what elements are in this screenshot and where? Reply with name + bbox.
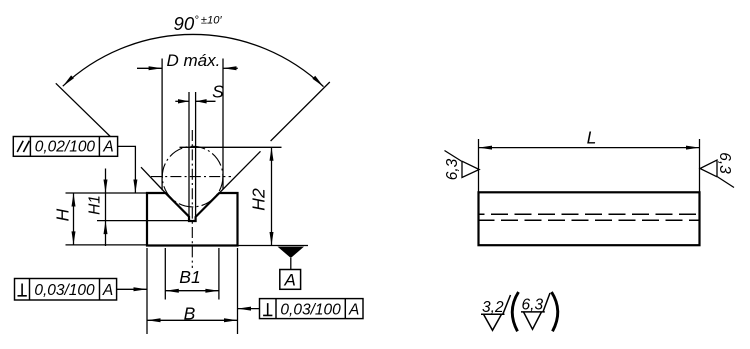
note bar 6,3: [521, 311, 545, 313]
datum triangle: [278, 247, 305, 258]
note triangle 6,3: [524, 312, 542, 329]
H1 bottom arrowhead: [104, 221, 108, 235]
H dimension line: [73, 193, 75, 245]
parallelism leader: [118, 146, 136, 193]
datum stem: [290, 258, 292, 270]
L right extension line: [699, 139, 701, 192]
right perpendicularity leader arrowhead: [238, 307, 252, 311]
svg-text:S: S: [212, 82, 224, 102]
B1 left arrowhead: [165, 289, 179, 293]
arc right arrowhead: [312, 76, 323, 87]
D max dimension line left: [137, 67, 162, 69]
vertical centerline: [191, 130, 193, 268]
svg-text:D máx.: D máx.: [166, 51, 220, 70]
note triangle 3,2: [484, 314, 502, 330]
svg-text:6,3: 6,3: [716, 152, 733, 174]
svg-text:0,02/100: 0,02/100: [35, 139, 96, 156]
H2 bottom extension line: [238, 245, 309, 247]
B left extension line: [146, 248, 148, 334]
D max right arrowhead: [223, 66, 237, 70]
right perpendicularity frame box: [260, 299, 364, 319]
D max left arrowhead: [149, 66, 163, 70]
B left arrowhead: [147, 318, 161, 322]
svg-text:B1: B1: [179, 267, 200, 287]
H1 top arrowhead: [104, 180, 108, 194]
gauge cylinder circle: [162, 146, 223, 207]
note slash 6,3: [543, 293, 550, 312]
B1 dimension line: [165, 290, 219, 292]
S right extension line: [195, 92, 197, 217]
left perpendicularity leader: [117, 288, 147, 290]
B1 left extension line: [164, 248, 166, 300]
svg-text:H: H: [53, 208, 73, 221]
D max dimension line right: [223, 67, 238, 69]
H bottom extension line: [66, 244, 148, 246]
svg-text:H2: H2: [249, 188, 269, 211]
S left arrowhead: [178, 99, 189, 103]
svg-text:A: A: [284, 271, 296, 290]
left perpendicularity frame box: [15, 279, 117, 301]
H1 extension line: [97, 220, 188, 222]
note open paren: [512, 292, 518, 331]
parallelism leader arrowhead: [133, 180, 137, 194]
B right extension line: [237, 248, 239, 334]
B right arrowhead: [224, 318, 238, 322]
90 deg dimension arc: [63, 34, 324, 86]
H1 dimension line: [105, 169, 107, 247]
H2 top extension line: [180, 146, 282, 148]
horizontal centerline: [151, 176, 231, 178]
svg-text:B: B: [184, 303, 196, 323]
H bottom arrowhead: [72, 231, 76, 245]
side view outline: [479, 192, 700, 245]
L left extension line: [478, 139, 480, 192]
arc left arrowhead: [63, 75, 74, 86]
S right arrowhead: [196, 99, 207, 103]
parallelism frame box: [13, 137, 117, 157]
svg-text:A: A: [102, 139, 113, 156]
note bar 3,2: [481, 313, 505, 315]
svg-text:A: A: [348, 301, 359, 318]
svg-text:3,2: 3,2: [482, 299, 504, 316]
svg-text:6,3: 6,3: [444, 158, 461, 180]
B1 right extension line: [218, 248, 220, 300]
right flank extension line upper: [271, 82, 330, 141]
parallelism symbol: [17, 141, 29, 152]
D max right extension line: [222, 59, 224, 190]
left roughness symbol: [445, 151, 480, 178]
V-block body outline: [147, 193, 238, 246]
H top extension line: [66, 192, 148, 194]
svg-text:H1: H1: [87, 195, 104, 215]
left flank extension line upper: [56, 83, 111, 136]
datum frame: [280, 270, 301, 290]
L right arrowhead: [686, 146, 700, 150]
B1 right arrowhead: [205, 289, 219, 293]
left perpendicularity symbol: [18, 284, 27, 296]
right roughness symbol: [700, 160, 734, 188]
H2 bottom arrowhead: [270, 232, 274, 246]
svg-text:A: A: [102, 282, 113, 299]
svg-text:L: L: [587, 128, 597, 148]
left perpendicularity leader arrowhead: [134, 287, 148, 291]
right perpendicularity symbol: [263, 303, 272, 315]
B dimension line: [147, 319, 238, 321]
S dimension line right: [196, 100, 216, 102]
H2 top arrowhead: [270, 147, 274, 161]
D max left extension line: [161, 59, 163, 191]
svg-text:6,3: 6,3: [522, 297, 544, 314]
right perpendicularity leader: [238, 308, 260, 310]
H2 dimension line: [271, 147, 273, 245]
svg-text:0,03/100: 0,03/100: [280, 301, 341, 318]
hidden line lower: [480, 219, 699, 221]
S dimension line left: [175, 100, 189, 102]
H top arrowhead: [72, 193, 76, 207]
note slash 3,2: [503, 295, 511, 314]
right flank extension line lower: [219, 151, 260, 193]
left flank extension line lower: [141, 167, 166, 193]
L left arrowhead: [479, 146, 493, 150]
L dimension line: [479, 147, 700, 149]
S left extension line: [188, 92, 190, 217]
svg-text:0,03/100: 0,03/100: [34, 282, 95, 299]
note close paren: [552, 292, 558, 331]
hidden line upper: [480, 213, 699, 215]
